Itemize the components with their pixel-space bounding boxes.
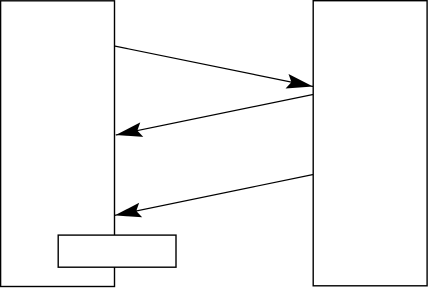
arrow 1 (left to right, downward slope) xyxy=(115,46,314,87)
left rectangle (left lifeline box) xyxy=(1,1,115,287)
arrow 3 (right to left, downward slope) xyxy=(115,175,314,216)
small rectangle (activation/label box, overlaps left lifeline) xyxy=(58,235,176,267)
arrow 2 (right to left, downward slope) xyxy=(116,95,313,136)
right rectangle (right lifeline box) xyxy=(313,1,427,286)
